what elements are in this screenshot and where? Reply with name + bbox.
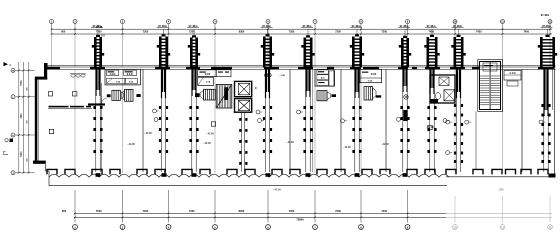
bottom wall opening hat x=187 (182, 169, 192, 174)
grid bubble axis-9 top (406, 20, 410, 68)
grid bubble axis-7 top (313, 20, 317, 68)
stairwell right (478, 60, 503, 112)
riser stack at x=163.5 (157, 24, 171, 68)
svg-text:97.48m: 97.48m (542, 24, 551, 28)
grid bubble axis-12 top (548, 20, 552, 68)
svg-text:M: M (12, 71, 14, 73)
interior shaft x=546 (541, 69, 550, 172)
bottom wall opening hat x=52 (47, 169, 57, 174)
building top wall thin line (44, 65, 556, 67)
bottom wall opening hat x=70 (65, 169, 75, 174)
svg-text:900: 900 (62, 209, 67, 213)
bottom grid bubble 8 (359, 225, 364, 230)
svg-text:~42.08: ~42.08 (273, 189, 281, 192)
svg-text:7300: 7300 (289, 31, 295, 34)
unit A room divider wall (101, 83, 103, 103)
svg-text:7450: 7450 (428, 31, 434, 34)
grid bubble left 0 (11, 68, 15, 72)
unit A fans (107, 89, 141, 101)
unit A room box at x=105 (105, 69, 141, 85)
grid bubble axis-1 top (50, 20, 54, 68)
elevator shaft upper (235, 81, 252, 96)
unit B fan (195, 89, 215, 100)
unit A divider continuation (101, 106, 103, 172)
svg-text:~42.08: ~42.08 (127, 143, 135, 146)
bottom wall opening hat x=412 (407, 169, 417, 174)
bottom grid stem 8 (360, 190, 362, 223)
wall fill at shaft foot x=308 (306, 173, 311, 177)
elevator shaft lower (235, 99, 252, 113)
section marker bottom-left (3, 150, 8, 155)
svg-text:7200: 7200 (335, 209, 341, 213)
svg-text:~42.08: ~42.08 (286, 141, 294, 144)
svg-text:C4.0t: C4.0t (110, 73, 116, 76)
bottom grid bubble 3 (120, 225, 125, 230)
svg-text:7300: 7300 (289, 209, 295, 213)
svg-text:7600: 7600 (21, 113, 23, 119)
svg-text:97.48m: 97.48m (453, 24, 462, 28)
svg-text:~1.05: ~1.05 (279, 75, 285, 77)
bottom grid stem 6 (267, 190, 269, 223)
svg-text:5700: 5700 (21, 80, 23, 86)
unit D fan (364, 87, 381, 100)
svg-text:97.48m: 97.48m (189, 24, 198, 28)
right wall (549, 66, 556, 178)
svg-text:~42.08: ~42.08 (381, 143, 389, 146)
svg-text:97.48m: 97.48m (400, 24, 409, 28)
svg-text:97.48m: 97.48m (352, 24, 361, 28)
svg-text:~42.08: ~42.08 (206, 133, 214, 136)
bottom grid bubble 2 (73, 225, 78, 230)
bottom wall opening hat x=232 (227, 169, 237, 174)
bottom grid bubble 6 (266, 225, 271, 230)
unit D room box at x=360 (360, 69, 382, 82)
svg-text:7200: 7200 (143, 31, 149, 34)
top dimension line lower (52, 33, 553, 35)
grid bubble axis-8 top (359, 20, 363, 68)
bottom wall opening hat x=322 (317, 169, 327, 174)
riser stack at x=98 (91, 24, 104, 68)
bottom wall opening hat x=367 (362, 169, 372, 174)
core box above stair (216, 70, 231, 77)
interior wall piece left unit (88, 103, 105, 105)
interior shaft x=267.5 (263, 69, 272, 172)
svg-text:7200: 7200 (143, 209, 149, 213)
shaft lower black x=405 (403, 110, 408, 121)
section marker top-left (4, 62, 12, 67)
bottom grid stem faint (549, 196, 551, 223)
svg-text:C4.0t: C4.0t (371, 73, 377, 76)
svg-text:7500: 7500 (96, 31, 102, 34)
party walls (143, 69, 522, 172)
interior shaft x=163.5 (159, 69, 168, 172)
bottom wall straight right part (446, 176, 555, 178)
bottom grid bubble 9 (405, 225, 410, 230)
svg-text:C4.0t: C4.0t (205, 73, 211, 76)
bay divider lines (75, 69, 503, 173)
bottom wall opening hat x=510.5 (506, 169, 516, 174)
interior shaft x=405 (400, 69, 409, 172)
grid bubble axis-4 top (167, 20, 171, 68)
bottom wall opening hat x=526 (521, 169, 531, 174)
building top wall band (44, 67, 556, 70)
bottom wall opening hat x=142 (137, 169, 147, 174)
machine room right (430, 75, 455, 103)
bottom wall opening hat x=543 (538, 169, 548, 174)
unit C room box at x=315 (315, 69, 335, 86)
bottom wall opening hat x=497 (492, 169, 502, 174)
grid bubble axis-5 top (213, 20, 217, 68)
top dimension line upper (52, 28, 553, 30)
fan unit near machine room (444, 90, 455, 101)
svg-text:7200: 7200 (335, 31, 341, 34)
wall fill at shaft foot x=164 (162, 173, 167, 177)
small rooms right of stair (504, 71, 521, 87)
bottom grid bubble 7 (313, 225, 318, 230)
grid bubble left 2 (11, 133, 15, 137)
grid bubble axis-2 top (73, 20, 77, 68)
bottom grid stem 4 (168, 190, 170, 223)
bottom dimension lines (74, 213, 552, 217)
riser stack at x=308 (301, 24, 315, 68)
grid bubble axis-10 top (453, 20, 457, 68)
bottom wall opening hat x=115 (110, 169, 120, 174)
bottom wall opening hat x=97 (92, 169, 102, 174)
bottom wall opening hat x=295 (290, 169, 300, 174)
svg-text:~42.08: ~42.08 (426, 126, 434, 129)
riser stack at x=405 (398, 24, 411, 68)
svg-text:4.0t: 4.0t (321, 77, 325, 80)
valve symbols near shaft 268 (265, 74, 286, 78)
svg-text:900: 900 (61, 31, 66, 34)
svg-text:97.48m: 97.48m (541, 14, 550, 17)
svg-text:97.48m: 97.48m (427, 24, 436, 28)
shaft below elevator core (239, 112, 247, 171)
bottom wavy wall line (49, 174, 449, 177)
interior shaft x=98 (93, 69, 102, 172)
svg-text:8300: 8300 (239, 209, 245, 213)
bottom wall opening hat x=205 (200, 169, 210, 174)
riser stack at x=194 (187, 24, 200, 68)
unit C fan (317, 91, 336, 101)
bottom wall opening hat x=451 (446, 169, 456, 174)
bottom grid stem faint (454, 196, 456, 223)
svg-text:7450: 7450 (523, 31, 529, 34)
svg-text:97.48m: 97.48m (93, 24, 102, 28)
grid bubble axis-6 top (266, 20, 270, 68)
riser stack at x=432 (424, 24, 439, 68)
bottom wall opening hat x=277 (272, 169, 282, 174)
bottom grid stem faint (502, 196, 504, 223)
bottom grid bubble 5 (213, 225, 218, 230)
interior shaft x=458.5 (454, 69, 463, 172)
interior shaft x=194 (189, 69, 198, 172)
svg-text:~42.08: ~42.08 (144, 132, 152, 135)
svg-text:7200: 7200 (381, 209, 387, 213)
grid bubble left 3 (11, 171, 15, 175)
bottom wall opening hat x=160 (155, 169, 165, 174)
left dimension lines (16, 62, 35, 174)
svg-text:5-5: 5-5 (101, 34, 105, 38)
svg-text:~42.08: ~42.08 (203, 142, 211, 145)
small extra bubble left (5, 139, 13, 143)
svg-text:E 4.0t: E 4.0t (127, 73, 133, 76)
bottom grid stem 5 (214, 190, 216, 223)
svg-text:~42.08: ~42.08 (343, 146, 351, 149)
svg-text:7450: 7450 (476, 31, 482, 34)
bottom wall opening hat x=430 (425, 169, 435, 174)
wall fill at shaft foot x=194 (192, 173, 197, 177)
bottom grid bubble faint (500, 225, 505, 230)
bottom wall opening hat x=250 (245, 169, 255, 174)
interior shaft x=308 (303, 69, 312, 172)
bottom grid stem 7 (314, 190, 316, 223)
riser stack at x=547.5 (538, 24, 557, 68)
svg-text:97.48m: 97.48m (262, 24, 271, 28)
svg-text:A 4.0t: A 4.0t (509, 72, 515, 75)
grid bubble axis-11 top (501, 20, 505, 68)
svg-text:7200: 7200 (381, 31, 387, 34)
interior shaft x=432 (427, 69, 436, 172)
svg-text:97.48m: 97.48m (303, 24, 312, 28)
bottom wall opening hat x=385 (380, 169, 390, 174)
grid bubble axis-3 top (121, 20, 125, 68)
unit B room box at x=197.7 (198, 70, 217, 86)
underlined room label (48, 106, 92, 109)
small circled tags along shafts (153, 109, 160, 113)
bottom wall opening hat x=478 (473, 169, 483, 174)
bottom grid bubble faint (548, 225, 553, 230)
svg-text:7500: 7500 (96, 209, 102, 213)
riser stack at x=458.5 (451, 24, 465, 68)
wall fill at shaft foot x=357 (355, 173, 360, 177)
interior shaft x=357 (352, 69, 361, 172)
svg-text:8300: 8300 (239, 31, 245, 34)
svg-text:5100: 5100 (21, 151, 23, 157)
bottom grid stem 2 (74, 190, 76, 223)
wall fill at shaft foot x=405 (403, 173, 408, 177)
shaft circle fitting (404, 95, 408, 99)
riser stack at x=267.5 (261, 24, 275, 68)
bottom grid bubble faint (453, 225, 458, 230)
svg-text:75800: 75800 (296, 218, 304, 222)
bottom wall lower edge line (49, 185, 447, 187)
columns hollow squares (48, 92, 52, 96)
riser stack at x=357 (350, 24, 364, 68)
wall fill at shaft foot x=268 (266, 173, 271, 177)
grid bubble left 1 (11, 95, 15, 99)
bottom grid bubble 4 (166, 225, 171, 230)
svg-text:7200: 7200 (189, 209, 195, 213)
wall fill at shaft foot x=98 (96, 173, 101, 177)
toilet fixtures ovals (70, 74, 86, 78)
door arc (102, 98, 107, 103)
top-left parapet notch (44, 63, 48, 67)
bottom grid stem 9 (407, 190, 409, 223)
svg-text:7200: 7200 (189, 31, 195, 34)
core stair (216, 84, 232, 108)
svg-text:1750: 1750 (498, 190, 504, 192)
bottom grid stem 3 (122, 190, 124, 223)
left wall (33, 65, 49, 177)
svg-text:97.48m: 97.48m (158, 24, 167, 28)
bottom wall opening hat x=340 (335, 169, 345, 174)
